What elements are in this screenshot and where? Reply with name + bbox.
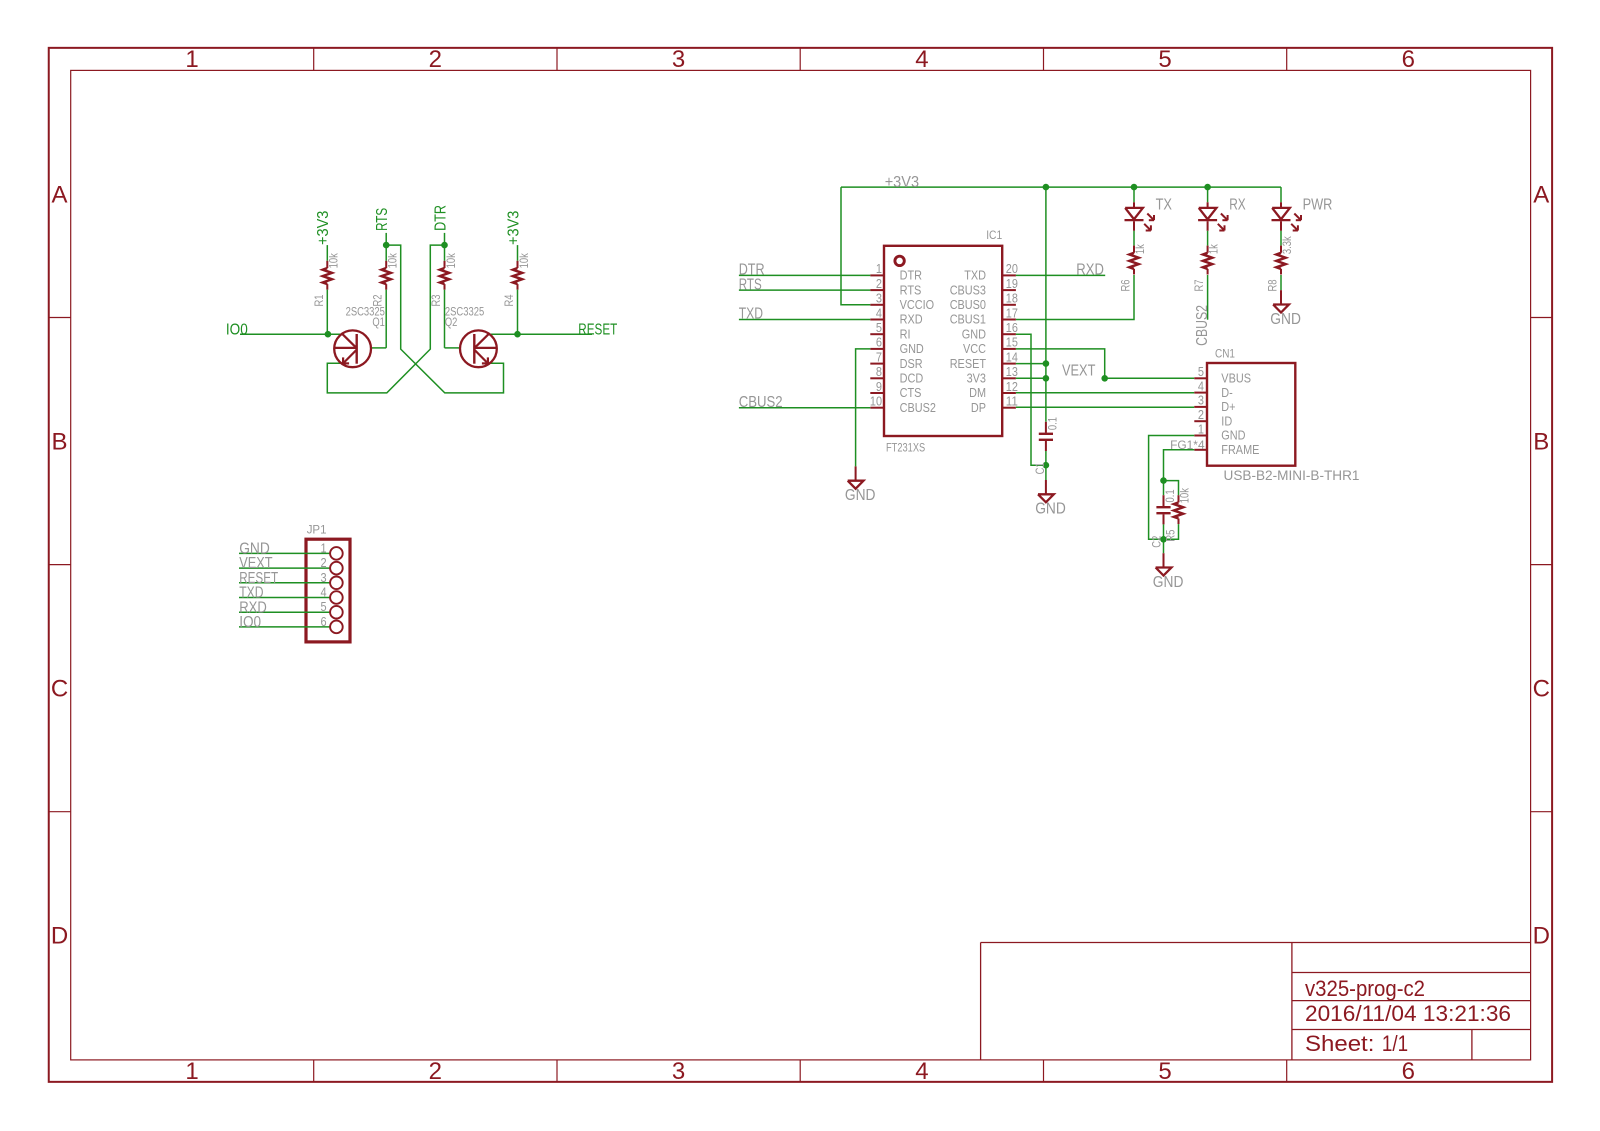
svg-text:10k: 10k: [444, 252, 458, 268]
svg-text:A: A: [51, 181, 67, 208]
svg-text:3.3k: 3.3k: [1280, 236, 1294, 255]
svg-text:Q2: Q2: [445, 315, 458, 329]
svg-text:VCCIO: VCCIO: [900, 297, 935, 312]
svg-text:VCC: VCC: [963, 341, 986, 356]
svg-text:10k: 10k: [386, 252, 400, 268]
svg-text:RESET: RESET: [950, 356, 986, 371]
svg-text:R4: R4: [502, 294, 516, 306]
svg-text:RXD: RXD: [900, 312, 923, 327]
svg-text:C2: C2: [1150, 535, 1164, 547]
svg-text:B: B: [51, 428, 67, 455]
svg-text:13: 13: [1006, 364, 1018, 379]
svg-text:2: 2: [321, 555, 327, 570]
svg-text:CN1: CN1: [1215, 346, 1235, 360]
svg-text:0.1: 0.1: [1046, 417, 1060, 430]
svg-text:TX: TX: [1156, 197, 1173, 214]
svg-text:20: 20: [1006, 261, 1018, 276]
svg-text:CBUS1: CBUS1: [950, 312, 986, 327]
svg-text:1k: 1k: [1207, 243, 1221, 254]
svg-text:v325-prog-c2: v325-prog-c2: [1305, 976, 1425, 1001]
svg-text:6: 6: [876, 335, 882, 350]
svg-text:3: 3: [876, 291, 882, 306]
svg-text:12: 12: [1006, 379, 1018, 394]
svg-text:RXD: RXD: [1076, 262, 1104, 279]
svg-text:CBUS2: CBUS2: [1194, 305, 1211, 346]
svg-text:5: 5: [1158, 1058, 1171, 1085]
svg-text:GND: GND: [900, 341, 924, 356]
svg-text:2: 2: [429, 1058, 442, 1085]
svg-text:C: C: [1533, 676, 1550, 703]
svg-text:IO0: IO0: [239, 614, 261, 631]
svg-text:C: C: [51, 676, 68, 703]
svg-text:B: B: [1533, 428, 1549, 455]
svg-text:3: 3: [1198, 393, 1204, 408]
svg-text:TXD: TXD: [739, 306, 763, 323]
svg-text:FT231XS: FT231XS: [886, 441, 925, 455]
svg-text:GND: GND: [1221, 428, 1245, 443]
svg-text:10k: 10k: [517, 252, 531, 268]
svg-text:PWR: PWR: [1303, 197, 1333, 214]
svg-text:CBUS3: CBUS3: [950, 282, 986, 297]
svg-text:R1: R1: [312, 294, 326, 306]
svg-text:4: 4: [321, 585, 327, 600]
svg-text:1: 1: [185, 1058, 198, 1085]
svg-text:4: 4: [915, 46, 928, 73]
svg-text:R2: R2: [371, 294, 385, 306]
svg-text:GND: GND: [1153, 574, 1184, 591]
svg-text:6: 6: [1402, 1058, 1415, 1085]
svg-text:2: 2: [876, 276, 882, 291]
svg-text:Sheet:: Sheet:: [1305, 1031, 1374, 1056]
svg-text:GND: GND: [845, 487, 876, 504]
svg-text:1: 1: [185, 46, 198, 73]
svg-text:ID: ID: [1221, 413, 1232, 428]
svg-text:1: 1: [1198, 421, 1204, 436]
svg-text:+3V3: +3V3: [505, 211, 522, 245]
svg-text:+3V3: +3V3: [885, 174, 919, 191]
svg-text:18: 18: [1006, 291, 1018, 306]
svg-text:JP1: JP1: [307, 523, 327, 537]
svg-text:RX: RX: [1229, 197, 1246, 214]
svg-text:6: 6: [1402, 46, 1415, 73]
svg-text:DM: DM: [969, 385, 986, 400]
svg-text:R8: R8: [1265, 279, 1279, 291]
svg-text:CBUS0: CBUS0: [950, 297, 986, 312]
svg-text:15: 15: [1006, 335, 1018, 350]
svg-text:10k: 10k: [1177, 487, 1191, 503]
svg-text:GND: GND: [1035, 501, 1066, 518]
svg-text:5: 5: [876, 320, 882, 335]
svg-text:DCD: DCD: [900, 371, 924, 386]
svg-text:8: 8: [876, 364, 882, 379]
svg-text:4: 4: [1198, 378, 1204, 393]
svg-text:FRAME: FRAME: [1221, 442, 1259, 457]
svg-text:VBUS: VBUS: [1221, 371, 1251, 386]
svg-text:RTS: RTS: [374, 208, 391, 231]
svg-text:2: 2: [429, 46, 442, 73]
svg-text:TXD: TXD: [964, 268, 986, 283]
svg-text:16: 16: [1006, 320, 1018, 335]
svg-text:D-: D-: [1221, 385, 1233, 400]
svg-text:3: 3: [672, 1058, 685, 1085]
svg-text:+3V3: +3V3: [315, 211, 332, 245]
svg-text:DTR: DTR: [433, 205, 450, 231]
svg-text:GND: GND: [962, 326, 986, 341]
svg-text:10: 10: [870, 394, 882, 409]
svg-text:7: 7: [876, 349, 882, 364]
svg-text:RI: RI: [900, 326, 911, 341]
svg-text:R3: R3: [429, 294, 443, 306]
svg-text:R6: R6: [1118, 279, 1132, 291]
svg-text:4: 4: [876, 305, 882, 320]
svg-text:CTS: CTS: [900, 385, 922, 400]
svg-text:Q1: Q1: [372, 315, 385, 329]
svg-text:5: 5: [1198, 364, 1204, 379]
svg-text:D: D: [1533, 923, 1550, 950]
svg-text:DP: DP: [971, 400, 986, 415]
svg-text:D+: D+: [1221, 399, 1235, 414]
svg-text:0.1: 0.1: [1163, 489, 1177, 502]
svg-text:R5: R5: [1164, 529, 1178, 541]
svg-text:C1: C1: [1033, 462, 1047, 474]
svg-text:1: 1: [321, 540, 327, 555]
svg-text:RESET: RESET: [578, 321, 617, 338]
svg-text:1: 1: [876, 261, 882, 276]
svg-text:VEXT: VEXT: [1062, 363, 1096, 380]
svg-text:D: D: [51, 923, 68, 950]
svg-text:3: 3: [672, 46, 685, 73]
svg-text:19: 19: [1006, 276, 1018, 291]
svg-text:5: 5: [321, 599, 327, 614]
svg-text:3: 3: [321, 570, 327, 585]
svg-text:R7: R7: [1192, 279, 1206, 291]
svg-text:5: 5: [1158, 46, 1171, 73]
svg-text:RTS: RTS: [900, 282, 922, 297]
svg-text:DTR: DTR: [900, 268, 922, 283]
svg-text:11: 11: [1006, 394, 1018, 409]
svg-text:1/1: 1/1: [1382, 1031, 1408, 1056]
svg-text:17: 17: [1006, 305, 1018, 320]
svg-text:14: 14: [1006, 349, 1018, 364]
svg-text:IO0: IO0: [226, 321, 248, 338]
svg-text:2: 2: [1198, 407, 1204, 422]
svg-text:3V3: 3V3: [967, 371, 986, 386]
svg-text:USB-B2-MINI-B-THR1: USB-B2-MINI-B-THR1: [1224, 468, 1360, 483]
svg-text:CBUS2: CBUS2: [900, 400, 936, 415]
svg-text:IC1: IC1: [986, 228, 1002, 242]
svg-text:A: A: [1533, 181, 1549, 208]
svg-text:4: 4: [915, 1058, 928, 1085]
svg-text:6: 6: [321, 614, 327, 629]
svg-text:RTS: RTS: [739, 276, 762, 293]
svg-text:2016/11/04 13:21:36: 2016/11/04 13:21:36: [1305, 1001, 1511, 1026]
svg-text:10k: 10k: [327, 252, 341, 268]
svg-text:DSR: DSR: [900, 356, 923, 371]
svg-text:CBUS2: CBUS2: [739, 394, 783, 411]
svg-text:9: 9: [876, 379, 882, 394]
svg-text:GND: GND: [1270, 311, 1301, 328]
svg-text:1k: 1k: [1133, 243, 1147, 254]
